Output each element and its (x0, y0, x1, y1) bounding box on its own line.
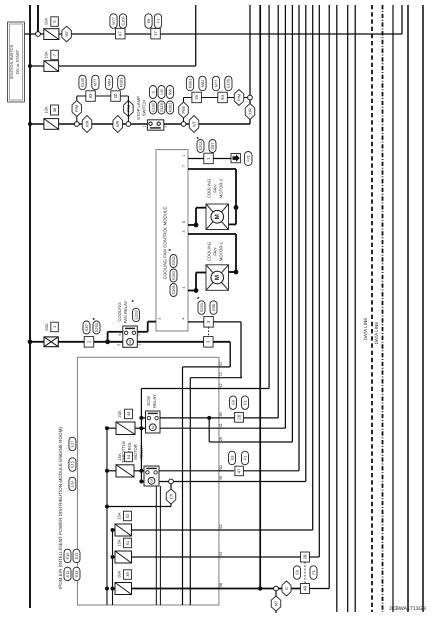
joint connector box 97 row1 (116, 28, 126, 39)
junction dot relay feed (105, 339, 110, 344)
wire vertical bus x319.3 (318, 5, 320, 557)
connector hexagon M7 row1 (62, 26, 72, 42)
wire row2 y67.5 (30, 65, 196, 67)
throttle control motor relay (144, 466, 159, 486)
wire vertical x195.7 to top (195, 5, 197, 66)
svg-text:E8: E8 (146, 19, 151, 24)
wire vertical x250 to top (249, 5, 251, 95)
svg-text:RW: RW (167, 88, 172, 95)
svg-text:X/R: X/R (84, 121, 89, 128)
svg-text:2: 2 (158, 317, 162, 319)
svg-text:50A: 50A (44, 323, 49, 330)
wire pin67 row (183, 366, 219, 368)
svg-text:E301: E301 (171, 271, 176, 280)
fuse 15A No.61 bottom (115, 551, 132, 563)
wire color hexagon XR 2 row3 (113, 116, 123, 133)
wire relay coil row under relay to box3 (137, 341, 203, 343)
splice open circle row3 left (74, 122, 79, 127)
junction dot row2 (28, 64, 32, 68)
wire IPDM bottom feed vertical 2 (112, 530, 114, 605)
connector ovals C LM RW over stop lamp switch (150, 86, 157, 99)
wire pin25 row (208, 418, 210, 442)
wire throttle coil out row y481.5 (159, 481, 219, 483)
fuse 10A No.38 (44, 119, 59, 130)
wire throttle contact out row y470.8 (159, 470, 219, 472)
svg-text:RELAY: RELAY (152, 394, 157, 408)
wire branch up to relay contact (107, 332, 109, 342)
svg-text:E8: E8 (294, 570, 299, 575)
junction dot fusible row (28, 339, 33, 344)
svg-text:F1: F1 (242, 456, 247, 461)
svg-text:M302: M302 (167, 103, 172, 113)
svg-text:44: 44 (126, 411, 131, 416)
svg-text:61: 61 (125, 540, 130, 545)
svg-text:28: 28 (302, 554, 307, 559)
wire parallel branch y96 (77, 95, 129, 97)
wire box3 upper to riser down to pin72 (213, 321, 241, 323)
fuse 10A No.5 (44, 29, 59, 40)
svg-text:E98: E98 (211, 304, 216, 311)
wire fusible link to box2 (58, 341, 84, 343)
junction dot motor2 right (234, 205, 239, 210)
wire pin62 row (132, 529, 219, 531)
svg-text:E8: E8 (229, 456, 234, 461)
joint connector box 28 (301, 552, 310, 562)
svg-text:P/M: P/M (181, 106, 186, 113)
svg-text:94: 94 (220, 95, 225, 100)
dashed connector link (208, 327, 210, 337)
svg-text:C: C (150, 90, 155, 93)
svg-text:M7: M7 (64, 30, 69, 36)
joint connector box 2 (84, 337, 94, 348)
svg-text:E105: E105 (80, 78, 85, 87)
svg-text:15A: 15A (117, 453, 122, 460)
fuse 15A No.52 bottom (115, 524, 132, 536)
splice open circle row3 right (181, 122, 186, 127)
connector ovals M301 M84 over box19 (186, 76, 193, 91)
wire box2 to junction (94, 341, 123, 343)
connector ovals E8 F1 over box47 (229, 451, 236, 465)
svg-text:F1: F1 (311, 570, 316, 575)
connector ovals E8 F1 row1 (145, 14, 152, 28)
svg-text:M301: M301 (187, 79, 192, 89)
wire module pin7 to motor2 right (188, 168, 236, 170)
wire module bottom-left pin step to relay (148, 321, 156, 323)
svg-text:E105: E105 (226, 79, 231, 88)
joint connector box 26 (235, 412, 244, 422)
svg-text:52: 52 (125, 513, 130, 518)
svg-text:E118: E118 (159, 103, 164, 112)
svg-text:FAN: FAN (213, 247, 218, 255)
wire CAN data line 1 (dashed) (371, 5, 373, 612)
svg-text:41: 41 (219, 423, 223, 427)
svg-text:72: 72 (219, 372, 223, 376)
wire color hexagon PM right of branch (124, 101, 133, 117)
svg-text:E8: E8 (230, 400, 235, 405)
wire CX to bottom fuse feed (107, 506, 171, 508)
svg-text:COOLING: COOLING (207, 179, 212, 198)
svg-text:1: 1 (182, 154, 186, 156)
svg-text:COOLING: COOLING (117, 302, 122, 321)
wire IPDM internal vertical x190.3 (189, 378, 191, 605)
svg-text:X/T: X/T (191, 120, 196, 127)
svg-text:E17: E17 (70, 441, 75, 448)
wire color hexagon PM branch2 left (179, 102, 189, 118)
fuse 10A No.7 (44, 61, 59, 72)
junction dots ECM relay left pins (139, 416, 143, 420)
svg-text:E201: E201 (199, 303, 204, 312)
connector ovals E17 E15 E14 E13 E12 E11 E10 of IPDM (69, 437, 76, 451)
fuse 15A No.54 (116, 465, 134, 477)
connector ovals M77 E105 over box94 (212, 76, 219, 91)
svg-text:67: 67 (219, 361, 223, 365)
svg-text:19: 19 (194, 95, 199, 100)
wire ECM coil out row y428.2 (160, 427, 219, 429)
page continuation arrow to F21 (231, 154, 240, 163)
svg-text:E203: E203 (171, 256, 176, 265)
joint connector box 94 (218, 92, 228, 103)
svg-text:2: 2 (117, 344, 121, 346)
wire box3 lower down into IPDM pin67 (213, 341, 230, 343)
svg-text:CX: CX (168, 493, 173, 499)
svg-text:M: M (214, 275, 221, 280)
svg-text:M84: M84 (106, 78, 111, 86)
svg-text:E13: E13 (74, 571, 79, 578)
svg-text:E105: E105 (120, 16, 125, 25)
svg-text:M84: M84 (200, 79, 205, 87)
svg-text:E14: E14 (70, 480, 75, 488)
svg-text:97: 97 (118, 31, 123, 36)
wire pin61 row (132, 556, 219, 558)
joint connector box 3 upper (204, 317, 214, 328)
svg-text:J: J (52, 326, 57, 328)
wire vertical bus x355.2 (354, 5, 356, 612)
svg-text:7: 7 (182, 165, 186, 167)
wire fuse44 to ECM relay (135, 427, 141, 429)
wire color hexagon PM left (72, 101, 82, 117)
wire color hexagon PM branch2 right (234, 90, 244, 106)
svg-text:F1: F1 (155, 19, 160, 24)
svg-text:38: 38 (52, 107, 57, 112)
wire vertical bus x336.8 (336, 5, 338, 612)
wire vertical bus x347.7 (347, 5, 349, 612)
wire CAN data line 2 (dashed) (382, 5, 384, 612)
svg-text:STOP LAMP: STOP LAMP (136, 96, 141, 120)
svg-text:FAN: FAN (213, 184, 218, 192)
svg-text:C: C (284, 587, 289, 590)
svg-text:93: 93 (88, 93, 93, 98)
connector ovals E8 F1 between box28 box48 (294, 566, 301, 580)
wire parallel branch left vertical (76, 96, 78, 122)
svg-text:4: 4 (182, 317, 186, 319)
svg-text:ECM: ECM (146, 396, 151, 406)
svg-text:F1: F1 (242, 400, 247, 405)
joint connector box 48 (301, 584, 310, 594)
svg-text:SWITCH: SWITCH (142, 100, 147, 117)
svg-text:E15: E15 (70, 461, 75, 468)
svg-text:42: 42 (219, 383, 223, 387)
wire row y341.8 (30, 341, 44, 343)
wire vertical bus x292.4 (291, 5, 293, 442)
wire parallel branch right vertical (127, 96, 129, 122)
joint connector box 3 lower (204, 337, 214, 348)
wire module pin4 to motor1 left (188, 290, 196, 292)
wire module pin3 to motor1 right (188, 233, 236, 235)
cooling fan control module box (156, 150, 188, 331)
svg-text:58: 58 (219, 583, 223, 587)
svg-text:DATA LINE: DATA LINE (374, 322, 379, 345)
wire pin72 row (190, 377, 219, 379)
svg-text:10A: 10A (44, 18, 49, 25)
wire parallel branch 2 vertical left (183, 98, 185, 122)
svg-text:10A: 10A (117, 571, 122, 578)
splice open circle row3 mid (126, 122, 131, 127)
connector ovals E102 E118 M302 over stop lamp switch (150, 101, 157, 114)
connector ovals E8 F1 over box26 (230, 396, 237, 410)
svg-text:E87: E87 (84, 324, 89, 331)
svg-text:48: 48 (302, 586, 307, 591)
junction dot throttle coil pin (139, 480, 143, 484)
cooling fan relay (123, 326, 138, 347)
svg-text:MOTOR: MOTOR (133, 444, 138, 460)
svg-text:DATA LINE: DATA LINE (363, 318, 368, 341)
joint connector box 93 (86, 91, 96, 102)
svg-text:M301: M301 (119, 78, 124, 88)
svg-text:4: 4 (182, 286, 186, 288)
wire vertical bus x278.2 (277, 5, 279, 418)
svg-text:X/R: X/R (115, 121, 120, 128)
dashed link box28 box48 (304, 562, 306, 583)
svg-text:25: 25 (219, 437, 223, 441)
wire color hexagon XR 1 row3 (82, 116, 92, 133)
svg-text:M77: M77 (93, 79, 98, 87)
fusible link 50A J (44, 337, 58, 347)
wire 20A fuse feed vertical x107 (106, 428, 108, 605)
svg-text:P/M: P/M (74, 105, 79, 112)
wire main power bus from ignition (29, 5, 31, 608)
svg-text:15A: 15A (117, 512, 122, 519)
wire ECM relay feed vertical x141.4 (140, 389, 142, 482)
svg-text:COOLING: COOLING (207, 242, 212, 261)
wire pin42 row (141, 388, 219, 390)
wire pin58 row (132, 588, 219, 590)
junction dot row3 (28, 122, 32, 126)
wire from splice down via M7 (275, 591, 277, 597)
wire vertical to top right x402 (401, 5, 403, 34)
splice open circle bottom (274, 586, 279, 591)
cooling fan motor 2 (206, 204, 229, 230)
connector ovals M84 M301 over box20 (105, 75, 112, 90)
svg-text:M: M (214, 214, 221, 219)
svg-text:F21: F21 (246, 155, 251, 162)
svg-text:2: 2 (163, 125, 167, 127)
wire module pin6 to motor2 left (188, 224, 196, 226)
svg-text:X/R: X/R (247, 108, 252, 115)
svg-text:E87: E87 (210, 143, 215, 150)
junction dot thick bus at bottom row (258, 586, 262, 590)
svg-text:FAN RELAY: FAN RELAY (123, 300, 128, 323)
svg-text:26: 26 (236, 414, 241, 419)
svg-text:IPDM E/R (INTELLIGENT POWER DI: IPDM E/R (INTELLIGENT POWER DISTRIBUTION… (58, 427, 63, 589)
svg-text:20A: 20A (117, 410, 122, 417)
svg-text:M77: M77 (213, 80, 218, 88)
svg-text:36: 36 (125, 572, 130, 577)
svg-text:RELAY: RELAY (139, 445, 144, 459)
svg-text:20: 20 (113, 93, 118, 98)
wire fuse54 to throttle relay (134, 470, 144, 472)
svg-text:6: 6 (118, 333, 122, 335)
ignition switch source label (8, 22, 25, 102)
connector ovals E105 M77 over box93 (79, 75, 86, 90)
fuse 20A No.44 (116, 422, 135, 435)
svg-text:6: 6 (182, 221, 186, 223)
ECM relay (146, 411, 161, 433)
splice open circle branch2 right (248, 95, 253, 100)
svg-text:E203: E203 (198, 141, 203, 150)
wire parallel branch2 y97.5 (184, 97, 251, 99)
svg-text:E203: E203 (133, 310, 138, 319)
svg-text:10A: 10A (44, 106, 49, 113)
wire color hexagon CX (166, 489, 176, 504)
wire vertical bus x285.4 (284, 5, 286, 428)
connector ovals E87 E203 over box2 (83, 321, 90, 334)
svg-text:1: 1 (138, 344, 142, 346)
connector ovals M77 E105 row1 (110, 14, 117, 28)
svg-text:54: 54 (126, 454, 131, 459)
svg-text:47: 47 (237, 468, 242, 473)
joint connector box 20 (111, 91, 121, 102)
wire box47 to bus (244, 470, 300, 472)
wire right page-edge vertical (422, 5, 424, 612)
svg-text:10A: 10A (44, 51, 49, 58)
svg-text:50: 50 (219, 465, 223, 469)
svg-text:MOTOR-2: MOTOR-2 (219, 178, 224, 198)
svg-text:E308: E308 (171, 285, 176, 294)
svg-text:IGNITION SWITCH: IGNITION SWITCH (9, 45, 14, 80)
wire vertical bus x329.2 (328, 5, 330, 589)
svg-text:ON or START: ON or START (15, 49, 20, 74)
svg-text:MOTOR-1: MOTOR-1 (219, 241, 224, 261)
wire vertical bus x408 (407, 5, 409, 612)
wire box28 to bus (310, 556, 320, 558)
svg-text:15A: 15A (117, 539, 122, 546)
svg-text:E10: E10 (65, 552, 70, 560)
junction dot v107 bottom row (105, 587, 109, 591)
wire throttle relay lower verticals to bottom edge (155, 486, 157, 605)
wire color hexagon XR on vertical x250 (249, 100, 251, 124)
wire vertical bus x393 (392, 5, 394, 612)
wire vertical bus x312.7 (312, 5, 314, 530)
connector oval F21 (244, 152, 252, 166)
wire vertical bus x269.1 (268, 5, 270, 389)
svg-text:JCBWA1713GB: JCBWA1713GB (389, 606, 427, 612)
wire vertical bus x305.8 (305, 5, 307, 482)
svg-text:P/M: P/M (236, 94, 241, 101)
splice open circle CX branch (169, 479, 174, 484)
svg-text:LM: LM (159, 89, 164, 94)
svg-text:3: 3 (182, 230, 186, 232)
wire IPDM internal vertical x182.5 (182, 367, 184, 605)
stop lamp switch (147, 120, 163, 130)
svg-text:E203: E203 (94, 323, 99, 332)
svg-text:17: 17 (153, 31, 158, 36)
svg-text:61: 61 (219, 551, 223, 555)
joint connector box 17 row1 (151, 28, 161, 39)
svg-text:5: 5 (137, 333, 141, 335)
wire row1 y34 (25, 33, 403, 35)
joint connector box 1 (204, 153, 214, 164)
cooling fan motor 1 (206, 265, 229, 291)
svg-text:M77: M77 (111, 17, 116, 25)
svg-text:E102: E102 (150, 103, 155, 112)
svg-text:36: 36 (219, 412, 223, 416)
wire vertical bus x299.0 (298, 5, 300, 471)
splice open circle row1 (36, 32, 41, 37)
wire CX branch down (170, 484, 172, 489)
joint connector box 19 (192, 92, 202, 103)
wire ECM contact out row y417.9 (160, 417, 219, 419)
wire box48 to bus (310, 588, 330, 590)
joint connector box 47 (235, 466, 244, 476)
wire module bottom-right pin to connector E201 (188, 321, 204, 323)
wire color hexagon XT row3 right (189, 116, 199, 133)
wire pin36 row to bus (219, 417, 278, 419)
wire second feed from top (37, 5, 39, 34)
wire vertical bus x260.2 (259, 5, 261, 589)
svg-text:M7: M7 (273, 600, 278, 606)
svg-text:62: 62 (219, 524, 223, 528)
wire module pin1 y158.5 (188, 158, 231, 160)
wire row3 y124 (30, 123, 250, 125)
fuse 10A No.36 bottom (115, 583, 132, 595)
svg-text:E11: E11 (74, 553, 79, 560)
svg-text:1: 1 (142, 125, 146, 127)
svg-text:E12: E12 (65, 571, 70, 578)
svg-text:49: 49 (219, 476, 223, 480)
IPDM E/R box (77, 357, 219, 605)
svg-text:COOLING FAN CONTROL MODULE: COOLING FAN CONTROL MODULE (163, 207, 168, 280)
wire color hexagon C bottom (282, 581, 291, 596)
